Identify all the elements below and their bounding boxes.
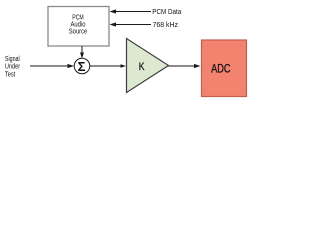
svg-text:Test: Test — [5, 71, 15, 78]
svg-text:Signal: Signal — [5, 56, 20, 63]
svg-text:Source: Source — [69, 28, 88, 35]
svg-text:Under: Under — [5, 64, 21, 71]
svg-text:ADC: ADC — [211, 61, 230, 75]
svg-text:Σ: Σ — [78, 59, 86, 74]
svg-text:K: K — [139, 61, 145, 73]
svg-text:PCM Data: PCM Data — [152, 9, 181, 16]
svg-text:Audio: Audio — [71, 21, 86, 28]
svg-text:PCM: PCM — [72, 14, 84, 21]
svg-text:768 kHz: 768 kHz — [153, 22, 179, 29]
